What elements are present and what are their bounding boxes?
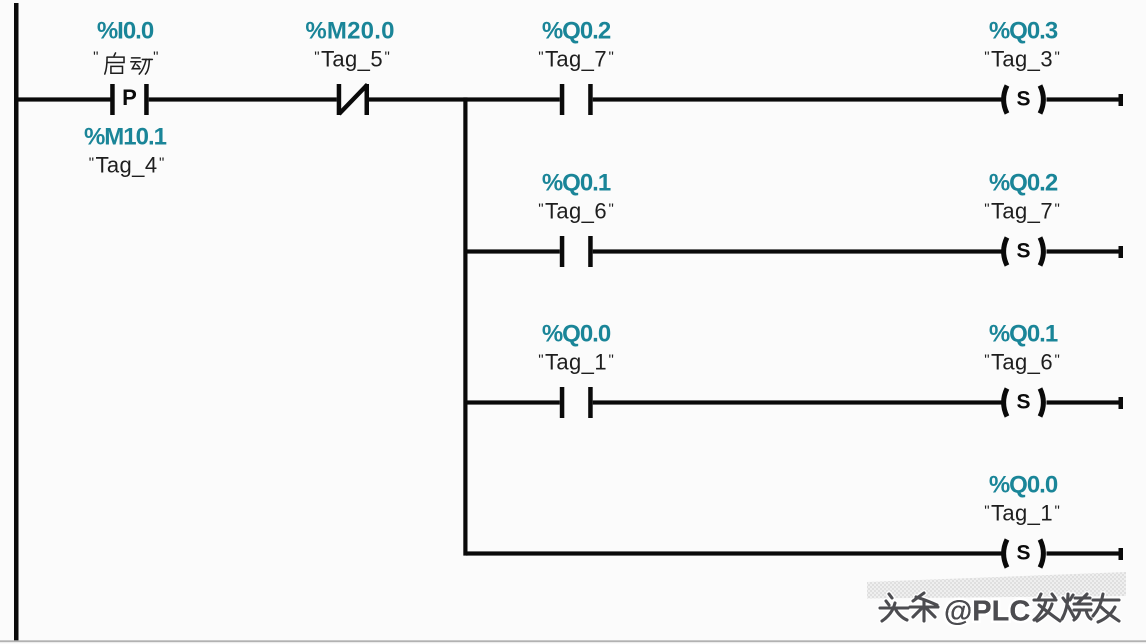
rung4 right terminal stub [1119, 548, 1124, 560]
svg-text:%Q0.2: %Q0.2 [989, 170, 1058, 197]
svg-text:%I0.0: %I0.0 [97, 18, 154, 45]
svg-text:S: S [1016, 542, 1030, 565]
svg-text:S: S [1016, 88, 1030, 111]
svg-text:%Q0.3: %Q0.3 [989, 18, 1058, 45]
wire rung3: branch to NO contact [466, 400, 560, 404]
wire rung2: NO contact to coil [593, 249, 1003, 253]
coil (S) %Q0.1 rung3 [1004, 389, 1044, 417]
wire rung1: P contact to NC contact [149, 97, 337, 101]
left power rail [14, 3, 19, 642]
wire rung2: coil to terminal [1047, 249, 1119, 253]
svg-text:": " [93, 49, 99, 66]
rung2 right terminal stub [1119, 246, 1124, 258]
bottom separator line [0, 640, 1146, 642]
label "启动" [93, 49, 159, 75]
svg-text:"Tag_6": "Tag_6" [984, 350, 1060, 375]
svg-text:"Tag_7": "Tag_7" [984, 199, 1060, 224]
svg-text:%M20.0: %M20.0 [305, 18, 394, 45]
rung3 right terminal stub [1119, 397, 1124, 409]
wire rung1: coil to terminal [1047, 97, 1119, 101]
wire rung2: branch to NO contact [466, 249, 560, 253]
svg-text:": " [153, 49, 159, 66]
svg-text:%Q0.1: %Q0.1 [989, 321, 1058, 348]
svg-text:"Tag_6": "Tag_6" [538, 199, 614, 224]
coil (S) %Q0.2 rung2 [1004, 238, 1044, 266]
watermark text 头条 @PLC发烧友 [880, 593, 1119, 622]
svg-text:%M10.1: %M10.1 [84, 124, 167, 151]
contact |P| positive-edge %I0.0 [110, 84, 149, 115]
svg-text:"Tag_1": "Tag_1" [538, 350, 614, 375]
coil (S) %Q0.3 rung1 [1004, 86, 1044, 114]
svg-text:"Tag_1": "Tag_1" [984, 501, 1060, 526]
svg-text:@PLC: @PLC [944, 596, 1030, 628]
svg-text:"Tag_3": "Tag_3" [984, 47, 1060, 72]
rung1 right terminal stub [1119, 94, 1124, 106]
svg-text:S: S [1016, 391, 1030, 414]
svg-text:"Tag_7": "Tag_7" [538, 47, 614, 72]
contact NO %Q0.0 rung3 [560, 387, 593, 418]
watermark mosaic blur patch [867, 572, 1126, 599]
contact NC %M20.0 [337, 84, 369, 115]
wire rung4: coil to terminal [1047, 551, 1119, 555]
coil (S) %Q0.0 rung4 [1004, 540, 1044, 568]
svg-text:"Tag_4": "Tag_4" [89, 153, 165, 178]
wire rung1: rail to P contact [18, 97, 111, 101]
wire rung1: NO contact to coil [593, 97, 1003, 101]
svg-text:P: P [122, 85, 137, 110]
svg-text:%Q0.0: %Q0.0 [989, 472, 1058, 499]
wire rung3: NO contact to coil [593, 400, 1003, 404]
svg-text:%Q0.1: %Q0.1 [542, 170, 611, 197]
svg-text:S: S [1016, 240, 1030, 263]
svg-text:%Q0.2: %Q0.2 [542, 18, 611, 45]
wire rung4: branch to coil [466, 551, 1003, 555]
wire rung3: coil to terminal [1047, 400, 1119, 404]
contact NO %Q0.1 rung2 [560, 236, 593, 267]
branch vertical rail [463, 97, 467, 555]
contact NO %Q0.2 rung1 [560, 84, 593, 115]
svg-text:%Q0.0: %Q0.0 [542, 321, 611, 348]
svg-text:"Tag_5": "Tag_5" [314, 47, 390, 72]
wire rung1: NC contact to NO contact (through branch junction) [369, 97, 560, 101]
